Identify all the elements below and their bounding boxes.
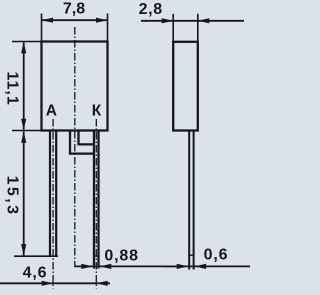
dim 7,8 extension left [41, 14, 43, 42]
dim 0,88 arrow right [100, 264, 112, 269]
svg-text:11,1: 11,1 [3, 71, 20, 105]
dim 2,8 line [141, 20, 244, 22]
dim 0,88 arrow left [81, 264, 93, 269]
dim 7,8 line [42, 19, 108, 21]
svg-text:А: А [46, 103, 57, 120]
cathode lead left edge [93, 131, 95, 269]
svg-text:15,3: 15,3 [3, 176, 20, 217]
cathode lead right edge [97, 131, 99, 269]
side lead tip cap [188, 254, 194, 256]
anode lead centerline [52, 119, 54, 289]
dim 7,8 arrow left [42, 18, 54, 23]
svg-text:4,6: 4,6 [23, 264, 48, 281]
svg-text:0,88: 0,88 [104, 247, 138, 264]
side lead right edge [193, 131, 195, 270]
dim 7,8 extension right [107, 14, 109, 42]
dim 0,88 line [75, 265, 178, 267]
dim 11,1 extension top [12, 41, 42, 43]
anode lead left edge [49, 131, 51, 257]
cathode lead centerline [95, 119, 97, 289]
dim 4,6 line [0, 282, 110, 284]
dim 2,8 extension right [197, 14, 199, 42]
dim 4,6 arrow right [96, 281, 108, 286]
dim 0,6 arrow left [177, 264, 189, 269]
dim 15,3 arrow down [21, 244, 26, 256]
dim 11,1 line [23, 43, 25, 130]
dim 2,8 arrow left [162, 18, 174, 23]
svg-text:2,8: 2,8 [139, 1, 163, 18]
svg-text:К: К [92, 103, 102, 120]
anode lead right edge [55, 131, 57, 257]
body outline front view [42, 42, 108, 131]
dim 7,8 arrow right [96, 18, 108, 23]
dim 11,1 extension bottom [12, 130, 42, 132]
dim 11,1 arrow up [21, 42, 26, 54]
dim 15,3 arrow up [21, 131, 26, 143]
dim 0,6 arrow right [195, 264, 207, 269]
lead tip extension line [14, 255, 58, 257]
side lead left edge [188, 131, 190, 270]
svg-text:7,8: 7,8 [63, 1, 85, 18]
dim 0,6 line [163, 265, 250, 267]
svg-text:0,6: 0,6 [204, 246, 229, 263]
center lead outer contour [70, 131, 95, 154]
dim 11,1 arrow down [21, 119, 26, 131]
package centerline [74, 27, 76, 267]
dim 2,8 extension left [172, 14, 174, 42]
dim 4,6 arrow left [42, 281, 54, 286]
side view body outline [173, 42, 198, 131]
dim 15,3 line [23, 132, 25, 256]
dim 2,8 arrow right [198, 18, 210, 23]
center lead inner contour [79, 131, 96, 145]
cathode lead tip cap [93, 255, 100, 257]
